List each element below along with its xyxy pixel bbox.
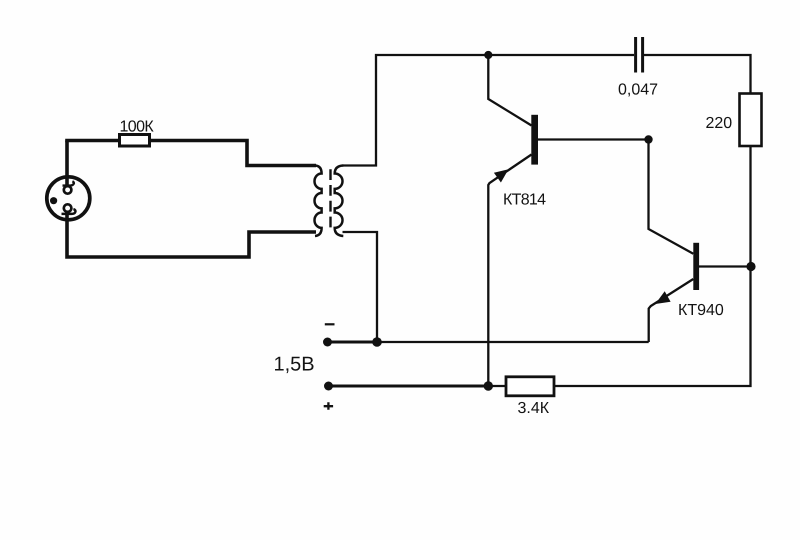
svg-text:3.4К: 3.4К [518, 400, 550, 417]
svg-text:0,047: 0,047 [618, 81, 658, 98]
svg-text:КТ814: КТ814 [503, 191, 546, 208]
svg-text:КТ940: КТ940 [678, 302, 724, 319]
svg-text:1,5В: 1,5В [274, 353, 315, 375]
svg-text:100К: 100К [120, 118, 155, 135]
svg-text:220: 220 [706, 115, 733, 132]
